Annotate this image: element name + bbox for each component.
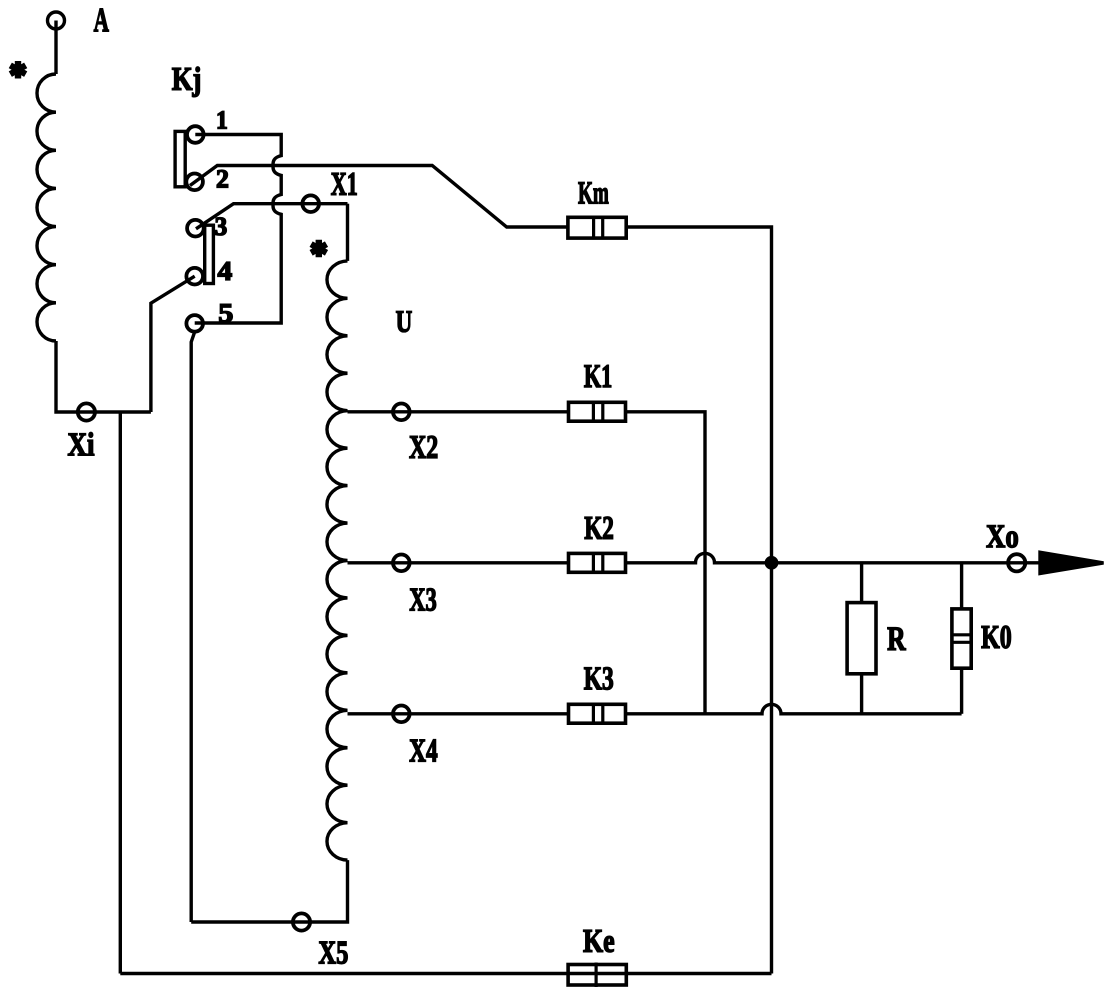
svg-text:K3: K3 xyxy=(584,661,614,697)
wire tap X4 row xyxy=(348,712,569,715)
svg-text:U: U xyxy=(396,304,413,339)
resistor R xyxy=(847,603,876,674)
relay coil Km xyxy=(568,217,626,238)
relay coil K2 xyxy=(569,553,626,572)
wire X1 to coil U top xyxy=(346,204,349,261)
svg-text:Kj: Kj xyxy=(172,62,202,98)
contact 1 xyxy=(187,126,204,143)
svg-text:X4: X4 xyxy=(409,733,438,769)
svg-text:3: 3 xyxy=(215,212,228,241)
relay Kj bar 1 xyxy=(175,131,185,186)
transformer primary winding xyxy=(37,74,56,341)
svg-text:A: A xyxy=(94,2,110,39)
svg-text:1: 1 xyxy=(216,106,228,135)
terminal Xi xyxy=(78,403,95,420)
terminal X3 xyxy=(393,555,410,572)
relay coil K3 xyxy=(569,704,626,723)
contact 3 xyxy=(187,220,204,237)
terminal A xyxy=(48,12,65,29)
terminal X5 xyxy=(293,913,310,930)
relay coil K1 xyxy=(569,402,626,421)
contact 4 xyxy=(186,268,203,285)
terminal X1 xyxy=(302,195,319,212)
wire left long drop xyxy=(119,412,122,974)
arrow output xyxy=(1040,552,1104,573)
svg-text:5: 5 xyxy=(218,298,233,328)
wire right vertical lower xyxy=(770,568,773,974)
wire bottom rail xyxy=(120,972,771,975)
svg-text:2: 2 xyxy=(216,164,229,193)
contact 2 xyxy=(186,174,203,191)
svg-text:K0: K0 xyxy=(981,620,1012,656)
wire K1 to K3 row xyxy=(626,412,706,714)
wire tap X3 row xyxy=(348,561,569,564)
wire coil bottom to Xi line xyxy=(56,341,151,412)
relay coil Ke xyxy=(568,965,626,986)
terminal Xo xyxy=(1008,554,1025,571)
svg-text:R: R xyxy=(887,621,906,658)
wire contact1 loop to contact5 with hops xyxy=(195,135,282,324)
svg-text:X3: X3 xyxy=(409,582,437,618)
wire Km to right vertical xyxy=(626,227,771,558)
transformer secondary winding U xyxy=(327,261,348,860)
svg-text:Xi: Xi xyxy=(68,427,95,463)
junction dot xyxy=(766,558,776,568)
contact 5 xyxy=(186,315,203,332)
wire R top xyxy=(860,563,863,603)
wire X5 to contact5 drop xyxy=(191,332,195,922)
asterisk secondary polarity xyxy=(311,240,326,258)
wire contact2 arm to Km xyxy=(190,166,568,228)
wire contact4 arm xyxy=(151,276,195,412)
svg-text:Ke: Ke xyxy=(583,924,615,960)
wire K0 top xyxy=(960,563,963,609)
wire coil U bottom to X5 xyxy=(191,860,347,922)
svg-text:X5: X5 xyxy=(318,935,348,971)
svg-text:4: 4 xyxy=(218,256,233,286)
terminal X2 xyxy=(393,404,410,421)
relay Kj bar 2 xyxy=(205,225,214,283)
wire R bottom xyxy=(860,674,863,714)
svg-text:K1: K1 xyxy=(584,359,612,395)
wire K0 bottom xyxy=(960,668,963,714)
svg-text:Km: Km xyxy=(578,174,609,210)
svg-text:X2: X2 xyxy=(409,430,438,466)
wire A to coil xyxy=(54,21,57,75)
svg-text:K2: K2 xyxy=(584,511,614,547)
svg-text:X1: X1 xyxy=(331,167,358,203)
svg-text:Xo: Xo xyxy=(986,519,1019,555)
terminal X4 xyxy=(393,706,410,723)
wire K3 to bottom rail of R,K0 with hop xyxy=(626,704,962,714)
wire tap X2 row xyxy=(348,410,569,413)
wire contact3 arm to X1 xyxy=(196,204,348,229)
wire K2 to main node with hop xyxy=(626,553,1043,563)
asterisk primary polarity xyxy=(10,61,25,79)
relay coil K0 xyxy=(952,609,971,668)
